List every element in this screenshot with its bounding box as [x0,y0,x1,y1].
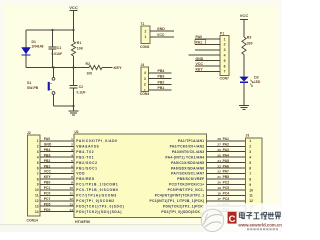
svg-text:3: 3 [224,48,226,52]
svg-text:PA2: PA2 [223,142,229,146]
svg-text:R3: R3 [247,36,252,40]
svg-text:2: 2 [224,43,226,47]
svg-text:3: 3 [37,150,39,154]
svg-text:18: 18 [217,192,221,196]
svg-text:PB2/SOC2: PB2/SOC2 [76,161,97,165]
svg-text:1: 1 [224,37,226,41]
svg-text:P1: P1 [220,31,224,35]
svg-text:PA5: PA5 [223,159,229,163]
svg-text:SW-PB: SW-PB [27,86,39,90]
svg-text:25: 25 [217,153,221,157]
svg-text:2: 2 [144,83,146,87]
svg-text:PA6/SDX/SDA/AN6: PA6/SDX/SDA/AN6 [171,166,204,170]
svg-text:LED: LED [254,80,261,84]
svg-text:PA7/SCK/SCL/AN7: PA7/SCK/SCL/AN7 [171,172,204,176]
svg-text:CON14: CON14 [27,219,38,223]
svg-text:KEY: KEY [114,65,123,70]
svg-text:5: 5 [37,161,39,165]
svg-text:20: 20 [217,181,221,185]
svg-text:PD5(TCK1)TP3_0(SDO): PD5(TCK1)TP3_0(SDO) [76,204,124,208]
svg-text:PD0(TCK2)TP2_1(PCK): PD0(TCK2)TP2_1(PCK) [163,204,204,208]
svg-text:5: 5 [71,159,73,163]
svg-text:12: 12 [69,197,73,201]
svg-text:PB2: PB2 [158,80,165,84]
svg-text:PB5/SCS/VREF: PB5/SCS/VREF [177,177,204,181]
svg-text:PD2(TPI_0)(SDO)SCK_0: PD2(TPI_0)(SDO)SCK_0 [161,210,204,214]
svg-text:PC1/TP1B_1/SCOM1: PC1/TP1B_1/SCOM1 [76,183,118,187]
svg-text:PB3: PB3 [44,153,51,157]
svg-text:7: 7 [71,170,73,174]
svg-text:PB4: PB4 [158,69,165,73]
svg-text:4: 4 [224,54,226,58]
svg-text:3: 3 [144,77,146,81]
svg-text:PA3/INT0/C0-/AN3: PA3/INT0/C0-/AN3 [172,150,204,154]
svg-text:VCC: VCC [69,5,78,10]
svg-text:6: 6 [224,64,226,68]
svg-text:GND: GND [44,142,52,146]
svg-text:1: 1 [71,137,73,141]
svg-text:4: 4 [249,156,251,160]
svg-text:6: 6 [37,166,39,170]
svg-text:26: 26 [217,148,221,152]
svg-text:PA3: PA3 [223,148,229,152]
svg-text:0.01UF: 0.01UF [52,52,63,56]
svg-text:PC3(INT1)TP1_1/TP2B_1(PCK): PC3(INT1)TP1_1/TP2B_1(PCK) [149,199,204,203]
svg-text:U1: U1 [75,130,79,134]
svg-text:5: 5 [249,161,251,165]
svg-text:4: 4 [37,155,39,159]
svg-text:22: 22 [217,170,221,174]
svg-text:KEY: KEY [196,68,204,72]
svg-text:S1: S1 [27,81,31,85]
svg-text:PA4-(INT1) TCK1/AN4: PA4-(INT1) TCK1/AN4 [165,155,204,159]
svg-text:13: 13 [69,202,73,206]
svg-text:VCC: VCC [44,170,52,174]
svg-text:J4: J4 [141,63,145,67]
svg-text:PB1: PB1 [44,164,51,168]
svg-text:PB4: PB4 [44,148,51,152]
svg-text:PC6(TPI_0)SCOM2: PC6(TPI_0)SCOM2 [76,199,114,203]
svg-text:10: 10 [249,188,253,192]
svg-text:PC1: PC1 [44,186,51,190]
svg-text:PA0/C0X/TPI_0/AD0: PA0/C0X/TPI_0/AD0 [76,139,117,143]
svg-text:14: 14 [35,210,39,214]
svg-text:11: 11 [35,194,39,198]
svg-text:0.1UF: 0.1UF [77,90,86,94]
svg-text:C2: C2 [79,85,84,89]
svg-text:HT46F50: HT46F50 [75,220,90,224]
svg-text:10: 10 [35,188,39,192]
svg-text:10K: 10K [77,47,84,51]
svg-text:PA1/TP1A/AN1: PA1/TP1A/AN1 [178,139,204,143]
svg-text:C1: C1 [57,46,62,50]
svg-text:PB4-TX2: PB4-TX2 [76,150,94,154]
svg-text:19: 19 [217,186,221,190]
svg-text:CON2: CON2 [140,45,150,49]
svg-text:PD0: PD0 [44,208,51,212]
svg-text:PC0: PC0 [44,192,51,196]
svg-text:www.eeworld.com.cn: www.eeworld.com.cn [237,223,282,228]
svg-text:1: 1 [37,139,39,143]
svg-text:PC4(INT)(PINT)TCK3/TP2_1: PC4(INT)(PINT)TCK3/TP2_1 [155,194,205,198]
svg-text:3: 3 [71,148,73,152]
svg-text:PC3: PC3 [223,197,230,201]
svg-text:6: 6 [249,166,251,170]
svg-text:3: 3 [249,150,251,154]
svg-text:PA2/TCK0/C0+/AN2: PA2/TCK0/C0+/AN2 [170,144,205,148]
svg-text:100: 100 [87,72,93,76]
svg-text:10: 10 [69,186,73,190]
svg-text:PC2/TCK2/PCK/C1+: PC2/TCK2/PCK/C1+ [169,183,204,187]
svg-text:1: 1 [249,139,251,143]
svg-text:T1: T1 [141,22,145,26]
svg-text:VCC: VCC [240,13,249,18]
svg-text:PD0(TCK2)(SDI)(SDA): PD0(TCK2)(SDI)(SDA) [76,210,122,214]
svg-text:9: 9 [249,183,251,187]
svg-text:PC5: PC5 [223,186,230,190]
svg-text:4: 4 [71,153,73,157]
svg-text:7: 7 [37,172,39,176]
svg-text:PA0: PA0 [196,35,203,39]
svg-text:PA7: PA7 [223,170,229,174]
svg-text:8: 8 [37,177,39,181]
svg-text:9: 9 [71,181,73,185]
svg-text:PC7: PC7 [44,197,51,201]
svg-text:PC0-TP1B_0/SCOM0: PC0-TP1B_0/SCOM0 [76,188,118,192]
svg-text:9: 9 [37,183,39,187]
svg-text:4: 4 [144,71,146,75]
svg-text:VCC: VCC [157,33,165,37]
svg-text:330: 330 [247,41,253,45]
svg-text:28: 28 [217,137,221,141]
svg-text:13: 13 [35,205,39,209]
svg-text:PB1: PB1 [158,86,165,90]
svg-text:2: 2 [249,145,251,149]
svg-text:7: 7 [224,70,226,74]
svg-text:J2: J2 [27,131,31,135]
svg-text:2: 2 [71,142,73,146]
svg-text:12: 12 [249,199,253,203]
svg-text:1: 1 [145,35,147,39]
svg-text:PA6: PA6 [223,164,229,168]
svg-text:11: 11 [70,192,74,196]
svg-text:PB0: PB0 [44,181,51,185]
svg-text:J3: J3 [246,134,250,138]
svg-text:5: 5 [224,59,226,63]
svg-text:PA0: PA0 [44,137,50,141]
svg-text:PB0/RES: PB0/RES [76,177,95,181]
svg-text:PA1: PA1 [223,137,229,141]
svg-text:PB1/SOC1: PB1/SOC1 [76,166,97,170]
svg-text:PC7/(TP1A)/SCOM3: PC7/(TP1A)/SCOM3 [76,194,117,198]
svg-text:23: 23 [217,164,221,168]
svg-text:R1: R1 [77,41,82,45]
svg-text:2: 2 [37,145,39,149]
svg-text:PB3: PB3 [158,75,165,79]
svg-text:PA5/C1X/SDO/AN5: PA5/C1X/SDO/AN5 [171,161,204,165]
svg-text:21: 21 [217,175,221,179]
svg-text:CON4: CON4 [140,92,150,96]
svg-text:8: 8 [71,175,73,179]
svg-text:KEY: KEY [44,175,52,179]
svg-text:8: 8 [249,177,251,181]
svg-text:17: 17 [217,197,221,201]
svg-text:D1: D1 [32,40,37,44]
svg-text:11: 11 [249,194,253,198]
svg-text:27: 27 [217,142,221,146]
svg-text:VDD: VDD [76,172,85,176]
svg-text:PC4: PC4 [223,192,230,196]
svg-text:GND: GND [157,27,165,31]
svg-text:6: 6 [71,164,73,168]
svg-text:PD5: PD5 [44,202,51,206]
svg-text:GND: GND [196,57,204,61]
svg-text:PC5/PINT/TP2_0/C1-: PC5/PINT/TP2_0/C1- [168,188,205,192]
svg-text:CON7: CON7 [220,77,230,81]
svg-text:C: C [229,214,236,225]
svg-text:VBA&AVSS: VBA&AVSS [76,144,99,148]
svg-text:12: 12 [35,199,39,203]
svg-text:PB2: PB2 [44,159,51,163]
svg-text:24: 24 [217,159,221,163]
svg-text:PB3-TX1: PB3-TX1 [76,155,94,159]
svg-text:VCC: VCC [196,62,204,66]
svg-text:14: 14 [69,208,73,212]
svg-text:7: 7 [249,172,251,176]
svg-text:R2: R2 [86,62,91,66]
svg-text:PA4: PA4 [223,153,229,157]
svg-text:PC2: PC2 [223,181,230,185]
svg-text:1N4148: 1N4148 [32,45,44,49]
svg-text:2: 2 [145,30,147,34]
svg-text:PB5: PB5 [223,175,230,179]
